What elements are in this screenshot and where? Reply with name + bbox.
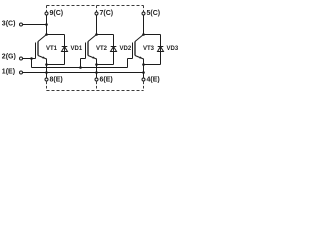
diode VD1 cathode bar xyxy=(62,46,68,48)
igbt VT2 emitter arrow xyxy=(92,56,95,58)
junction 3(C) on collector wire xyxy=(45,23,48,26)
igbt VT2 collector lead xyxy=(88,35,97,42)
svg-text:5(C): 5(C) xyxy=(147,10,161,17)
svg-text:3(C): 3(C) xyxy=(2,21,16,28)
wire VD1 anode to emitter node xyxy=(47,64,65,66)
pin 6 stub through bottom edge xyxy=(96,82,98,91)
igbt VT3 collector lead xyxy=(135,35,144,42)
igbt VT3 emitter arrow xyxy=(139,56,142,58)
svg-text:9(C): 9(C) xyxy=(50,10,64,17)
diode VD2 triangle xyxy=(111,47,117,52)
igbt VT2 gate bar xyxy=(85,43,87,59)
igbt VT2 emitter lead xyxy=(88,56,97,60)
terminal pin 8(E) xyxy=(45,78,48,81)
wire VD1 through xyxy=(64,35,66,65)
junction gate branch xyxy=(30,57,33,60)
wire gate lead VT3 xyxy=(128,58,133,60)
svg-text:6(E): 6(E) xyxy=(100,77,113,84)
svg-text:VD1: VD1 xyxy=(71,46,83,52)
diode VD2 cathode bar xyxy=(111,46,117,48)
terminal 1(E) xyxy=(20,71,23,74)
terminal 3(C) xyxy=(20,23,23,26)
junction emitter rail VT2 xyxy=(95,71,98,74)
wire collector to VD2 xyxy=(97,34,114,36)
terminal pin 6(E) xyxy=(95,78,98,81)
wire gate drop cell2 xyxy=(80,59,82,68)
junction emitter node VD2 xyxy=(95,63,98,66)
diode VD3 cathode bar xyxy=(158,46,164,48)
igbt VT1 emitter arrow xyxy=(42,56,45,58)
wire collector VT3 xyxy=(143,15,145,35)
svg-text:VD3: VD3 xyxy=(167,46,179,52)
module outline left-bottom stub (dashed) xyxy=(46,82,48,91)
junction emitter rail VT3 xyxy=(142,71,145,74)
junction collector node VT3 xyxy=(142,33,145,36)
module outline left-top stub (dashed) xyxy=(46,6,48,12)
terminal pin 9(C) xyxy=(45,12,48,15)
wire collector to VD1 xyxy=(47,34,65,36)
igbt VT1 body bar xyxy=(37,42,39,56)
wire emitter VT1 xyxy=(46,59,48,78)
wire collector VT2 xyxy=(96,15,98,35)
junction emitter node VD3 xyxy=(142,63,145,66)
wire gate drop cell1 xyxy=(31,59,33,68)
terminal 2(G) xyxy=(20,57,23,60)
terminal pin 5(C) xyxy=(142,12,145,15)
junction emitter node VD1 xyxy=(45,63,48,66)
wire collector VT1 xyxy=(46,15,48,35)
diode VD1 triangle xyxy=(62,47,68,52)
module outline top edge (dashed) xyxy=(47,5,144,7)
junction collector node VT1 xyxy=(45,33,48,36)
igbt VT1 collector lead xyxy=(38,35,47,42)
svg-text:7(C): 7(C) xyxy=(100,10,114,17)
svg-text:VT1: VT1 xyxy=(46,46,58,52)
svg-text:4(E): 4(E) xyxy=(147,77,160,84)
wire 3(C) to collector node xyxy=(23,24,47,26)
terminal pin 4(E) xyxy=(142,78,145,81)
wire gate lead VT2 xyxy=(81,58,86,60)
svg-text:8(E): 8(E) xyxy=(50,77,63,84)
module outline right-bottom stub (dashed) xyxy=(143,82,145,91)
wire VD3 anode to emitter node xyxy=(144,64,161,66)
wire 2(G) to VT1 gate xyxy=(23,58,36,60)
module outline right-top stub (dashed) xyxy=(143,6,145,12)
wire VD2 anode to emitter node xyxy=(97,64,114,66)
igbt VT3 gate bar xyxy=(132,43,134,59)
junction emitter rail VT1 xyxy=(45,71,48,74)
terminal pin 7(C) xyxy=(95,12,98,15)
junction collector node VT2 xyxy=(95,33,98,36)
diode VD3 triangle xyxy=(158,47,164,52)
svg-text:2(G): 2(G) xyxy=(2,54,16,61)
svg-text:VT2: VT2 xyxy=(96,46,108,52)
junction gate rail cell2 xyxy=(79,66,82,69)
module outline bottom edge (dashed) xyxy=(47,90,144,92)
igbt VT1 gate bar xyxy=(35,43,37,59)
wire emitter VT3 xyxy=(143,59,145,78)
wire 1(E) emitter rail xyxy=(23,72,144,74)
svg-text:VD2: VD2 xyxy=(120,46,132,52)
pin 7 stub through top edge xyxy=(96,6,98,12)
igbt VT3 body bar xyxy=(134,42,136,56)
wire VD3 through xyxy=(160,35,162,65)
svg-text:VT3: VT3 xyxy=(143,46,155,52)
igbt VT3 emitter lead xyxy=(135,56,144,60)
svg-text:1(E): 1(E) xyxy=(2,69,15,76)
wire gate rail xyxy=(32,67,128,69)
wire emitter VT2 xyxy=(96,59,98,78)
wire gate drop cell3 xyxy=(127,59,129,68)
wire collector to VD3 xyxy=(144,34,161,36)
igbt VT1 emitter lead xyxy=(38,56,47,60)
igbt VT2 body bar xyxy=(87,42,89,56)
wire VD2 through xyxy=(113,35,115,65)
